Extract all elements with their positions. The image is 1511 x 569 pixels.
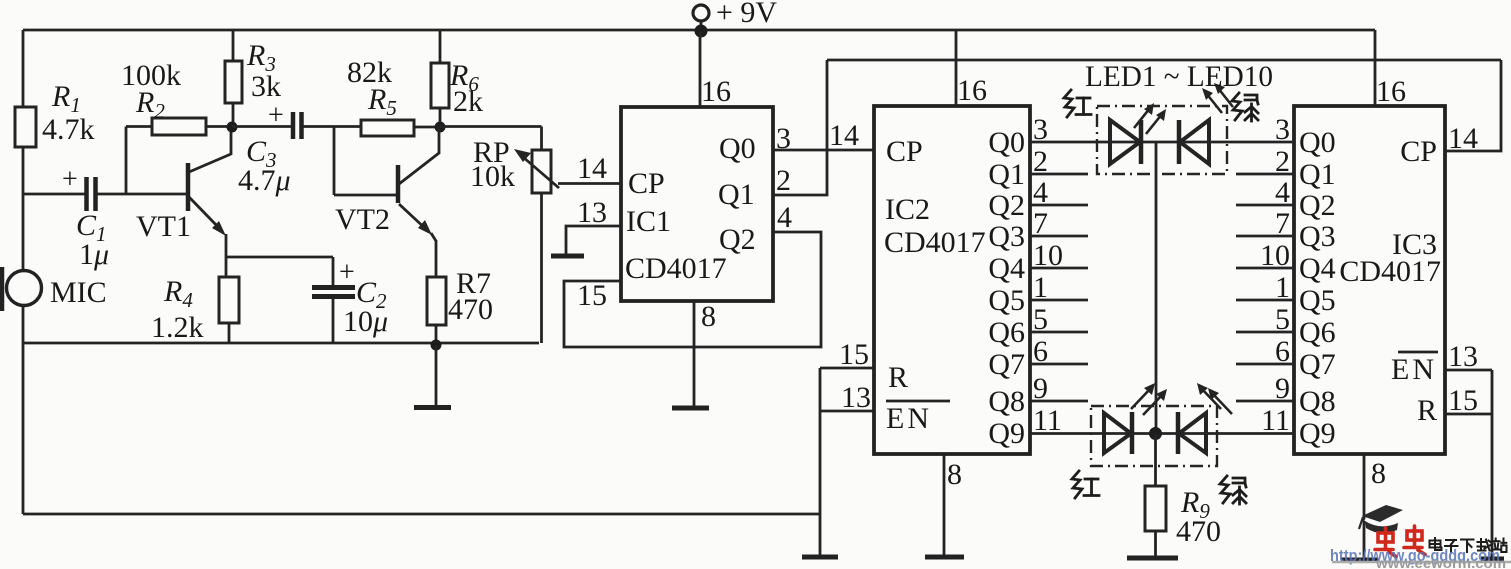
svg-text:R: R xyxy=(888,361,908,394)
svg-text:+: + xyxy=(339,257,355,288)
svg-text:Q2: Q2 xyxy=(988,189,1025,222)
svg-text:14: 14 xyxy=(577,152,607,185)
svg-text:13: 13 xyxy=(841,381,871,414)
svg-text:11: 11 xyxy=(1261,404,1290,437)
svg-text:IC2: IC2 xyxy=(885,193,930,226)
svg-text:15: 15 xyxy=(839,338,869,371)
svg-text:Q1: Q1 xyxy=(1299,158,1336,191)
svg-text:www.eeworm.com: www.eeworm.com xyxy=(1375,555,1506,569)
svg-text:Q1: Q1 xyxy=(988,158,1025,191)
svg-text:470: 470 xyxy=(448,293,493,326)
svg-text:16: 16 xyxy=(1376,75,1406,108)
svg-text:Q9: Q9 xyxy=(988,417,1025,450)
svg-text:CP: CP xyxy=(886,135,923,168)
svg-text:VT2: VT2 xyxy=(335,203,390,236)
svg-text:Q7: Q7 xyxy=(988,348,1025,381)
svg-text:Q2: Q2 xyxy=(719,223,756,256)
svg-text:10k: 10k xyxy=(470,160,515,193)
svg-text:IC1: IC1 xyxy=(626,205,671,238)
svg-text:4.7μ: 4.7μ xyxy=(238,164,291,197)
svg-text:16: 16 xyxy=(957,74,987,107)
svg-text:4: 4 xyxy=(777,201,792,234)
svg-text:13: 13 xyxy=(1448,340,1478,373)
svg-text:470: 470 xyxy=(1176,515,1221,548)
svg-text:Q2: Q2 xyxy=(1299,189,1336,222)
svg-text:4.7k: 4.7k xyxy=(42,113,95,146)
svg-text:Q8: Q8 xyxy=(1299,385,1336,418)
svg-text:CD4017: CD4017 xyxy=(1339,255,1441,288)
svg-text:LED1 ~ LED10: LED1 ~ LED10 xyxy=(1085,60,1273,93)
svg-text:14: 14 xyxy=(829,119,859,152)
svg-text:16: 16 xyxy=(701,75,731,108)
svg-text:R: R xyxy=(1417,394,1437,427)
svg-text:+: + xyxy=(62,164,78,195)
svg-text:CP: CP xyxy=(628,167,665,200)
svg-text:Q8: Q8 xyxy=(988,385,1025,418)
svg-text:Q5: Q5 xyxy=(1299,284,1336,317)
svg-text:Q5: Q5 xyxy=(988,284,1025,317)
svg-text:3: 3 xyxy=(776,122,791,155)
svg-text:15: 15 xyxy=(577,279,607,312)
svg-text:2k: 2k xyxy=(453,85,483,118)
svg-text:CP: CP xyxy=(1400,135,1437,168)
svg-text:8: 8 xyxy=(947,458,962,491)
svg-text:8: 8 xyxy=(701,300,716,333)
svg-text:Q0: Q0 xyxy=(988,126,1025,159)
svg-text:Q9: Q9 xyxy=(1299,417,1336,450)
svg-text:+: + xyxy=(268,100,284,131)
svg-text:3k: 3k xyxy=(251,70,281,103)
svg-text:EN: EN xyxy=(886,402,932,435)
svg-text:13: 13 xyxy=(577,196,607,229)
svg-text:2: 2 xyxy=(776,164,791,197)
svg-text:Q7: Q7 xyxy=(1299,348,1336,381)
svg-text:Q6: Q6 xyxy=(1299,316,1336,349)
svg-text:Q3: Q3 xyxy=(1299,220,1336,253)
svg-text:14: 14 xyxy=(1448,122,1478,155)
svg-text:10μ: 10μ xyxy=(343,305,388,338)
svg-text:Q0: Q0 xyxy=(719,132,756,165)
svg-text:Q1: Q1 xyxy=(718,178,755,211)
svg-text:CD4017: CD4017 xyxy=(884,226,986,259)
svg-text:1μ: 1μ xyxy=(79,238,109,271)
svg-text:CD4017: CD4017 xyxy=(625,252,727,285)
svg-text:Q4: Q4 xyxy=(988,252,1025,285)
svg-text:+ 9V: + 9V xyxy=(716,0,777,29)
svg-text:8: 8 xyxy=(1371,457,1386,490)
svg-text:Q0: Q0 xyxy=(1299,126,1336,159)
svg-text:15: 15 xyxy=(1448,384,1478,417)
svg-text:MIC: MIC xyxy=(50,276,107,309)
svg-text:EN: EN xyxy=(1391,353,1437,386)
svg-text:11: 11 xyxy=(1033,404,1062,437)
svg-text:Q3: Q3 xyxy=(988,220,1025,253)
svg-text:Q6: Q6 xyxy=(988,316,1025,349)
svg-text:1.2k: 1.2k xyxy=(151,311,204,344)
svg-text:VT1: VT1 xyxy=(136,210,191,243)
svg-text:Q4: Q4 xyxy=(1299,252,1336,285)
